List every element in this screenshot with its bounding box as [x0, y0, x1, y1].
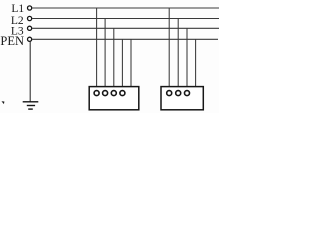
wire load2 L1 tap — [168, 8, 170, 90]
load1 terminal 2 — [103, 91, 108, 96]
load box 2 — [161, 87, 203, 110]
svg-text:PEN: PEN — [0, 34, 24, 48]
stray caption mark — [2, 101, 5, 104]
wire load2 L2 tap — [177, 19, 179, 91]
ground symbol bar 3 — [28, 108, 33, 110]
load1 terminal 1 — [94, 91, 99, 96]
svg-text:L1: L1 — [11, 3, 24, 15]
load box 1 — [89, 87, 139, 110]
wire PEN bus — [32, 38, 218, 40]
ground symbol bar 1 — [23, 101, 39, 103]
wire load2 chassis tap from PEN — [195, 39, 197, 87]
wire load2 L3 tap — [186, 28, 188, 90]
load2 terminal 3 — [185, 91, 190, 96]
wire load1 N tap from PEN — [121, 39, 123, 90]
wire load1 L1 tap — [96, 8, 98, 90]
load2 terminal 1 — [167, 91, 172, 96]
wire load1 chassis tap from PEN — [130, 39, 132, 87]
terminal circle PEN — [28, 37, 32, 41]
wire load1 L3 tap — [113, 28, 115, 90]
wire L2 bus — [32, 18, 219, 20]
wire PEN to earth — [29, 42, 31, 102]
terminal circle L2 — [28, 16, 32, 20]
wire L1 bus — [32, 7, 219, 9]
terminal circle L1 — [28, 6, 32, 10]
load1 terminal 3 — [111, 91, 116, 96]
ground symbol bar 2 — [27, 105, 35, 107]
load1 terminal 4 — [120, 91, 125, 96]
load2 terminal 2 — [176, 91, 181, 96]
wire load1 L2 tap — [104, 19, 106, 91]
wire L3 bus — [32, 27, 219, 29]
terminal circle L3 — [28, 26, 32, 30]
